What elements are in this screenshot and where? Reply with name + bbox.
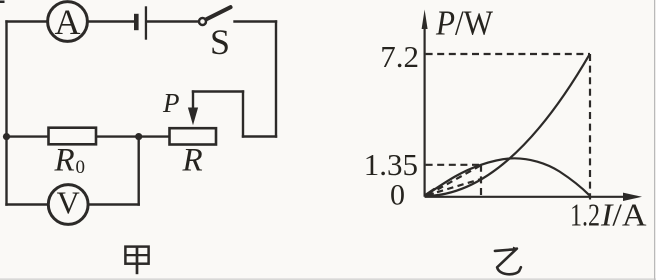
svg-text:1.2: 1.2 — [570, 197, 600, 233]
label yi (乙) drawn glyph — [495, 249, 521, 275]
secant arrowhead barb upper — [425, 189, 434, 195]
wire inner vertical up — [242, 92, 244, 137]
battery cell: short thick plate — [134, 14, 139, 30]
scan speck top-left corner — [0, 1, 5, 4]
svg-text:S: S — [210, 22, 230, 62]
wire left vertical — [5, 22, 7, 205]
junction node left — [3, 133, 10, 140]
wire top left to ammeter — [7, 20, 48, 22]
wire slider shaft — [192, 92, 194, 113]
wire main row left junction to R0 — [7, 135, 49, 137]
y-axis P — [424, 24, 426, 197]
wire battery to switch — [147, 20, 200, 22]
switch S pivot — [199, 18, 206, 25]
slider P arrowhead — [188, 108, 198, 126]
label jia (甲) drawn glyph — [125, 247, 148, 275]
dashed line 1.2 vertical — [589, 54, 591, 200]
dashed secant to lower point — [437, 179, 481, 192]
secant arrowhead barb lower — [425, 194, 432, 196]
wire voltmeter to right — [89, 203, 139, 205]
wire bottom of right leg to inner corner — [243, 135, 276, 137]
wire bottom left to voltmeter — [7, 203, 49, 205]
dashed secant to upper point — [438, 165, 482, 189]
svg-text:0: 0 — [76, 157, 86, 178]
svg-text:7.2: 7.2 — [380, 39, 419, 74]
scan edge line right — [654, 0, 655, 280]
svg-text:0: 0 — [390, 179, 405, 212]
switch S lever — [207, 7, 231, 19]
svg-text:1.35: 1.35 — [364, 147, 418, 182]
curve P_R (dome) — [425, 158, 590, 196]
ammeter A1 circle — [48, 2, 88, 42]
y-axis arrowhead — [422, 10, 428, 30]
wire over slider — [193, 90, 243, 92]
svg-text:A: A — [55, 2, 81, 42]
dashed vertical at I=0.45 — [480, 165, 482, 199]
svg-text:P: P — [162, 88, 180, 118]
wire R0 to mid junction — [96, 135, 139, 137]
svg-text:V: V — [57, 185, 80, 221]
x-axis arrowhead — [623, 193, 642, 201]
resistor R0 body — [49, 128, 97, 145]
wire switch to right corner — [235, 20, 277, 22]
wire mid junction down to voltmeter row — [137, 137, 139, 205]
yi glyph corner tick — [513, 247, 518, 251]
dashed line 7.2 horizontal — [426, 53, 590, 55]
wire mid junction to rheostat R — [139, 135, 170, 137]
junction node mid — [135, 133, 142, 140]
scan edge line bottom — [0, 279, 656, 280]
wire right vertical down — [275, 22, 277, 137]
svg-text:R: R — [182, 143, 203, 179]
svg-text:I/A: I/A — [600, 197, 647, 233]
x-axis I — [425, 196, 628, 198]
voltmeter V circle — [48, 185, 88, 225]
battery cell: long thin plate — [145, 6, 147, 39]
curve P total (parabola) — [425, 54, 590, 196]
rheostat R body — [170, 128, 217, 144]
wire ammeter to battery — [88, 20, 134, 22]
svg-text:R: R — [54, 143, 75, 179]
svg-text:P/W: P/W — [435, 4, 493, 43]
dashed line 1.35 horizontal — [426, 164, 481, 166]
